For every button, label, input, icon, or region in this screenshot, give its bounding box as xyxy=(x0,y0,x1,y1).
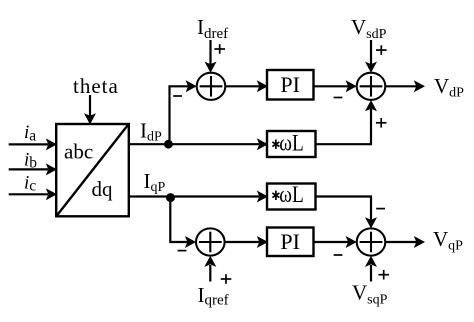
wire feedback IqP to summer S3 xyxy=(170,197,196,249)
wire VqP output xyxy=(385,236,425,248)
sign minus at summer S2 left xyxy=(334,97,343,99)
wire theta arrow xyxy=(84,95,96,125)
summing junction S2 xyxy=(357,73,386,100)
wire IqP line to wL2 xyxy=(129,191,268,203)
svg-text:PI: PI xyxy=(280,72,300,97)
sign plus at Idref xyxy=(214,44,225,54)
wire feedback IdP to summer S1 xyxy=(170,80,197,144)
block PI2 xyxy=(267,228,314,257)
wire VsdP arrow into summer S2 xyxy=(365,40,377,73)
wire Idref arrow into summer S1 xyxy=(205,40,217,73)
sign minus at summer S4 left xyxy=(334,254,343,256)
summing junction S3 xyxy=(196,228,225,255)
block wL2 xyxy=(267,182,316,210)
wire ia input xyxy=(9,138,57,150)
sign minus at summer S1 left xyxy=(173,95,182,97)
sign plus at S2 bottom input xyxy=(376,118,387,128)
wire wL2 to summer S4 top xyxy=(316,197,378,229)
wire ic input xyxy=(9,188,57,200)
wire VsqP arrow into summer S4 xyxy=(365,256,377,282)
wire VdP output xyxy=(385,80,425,92)
wire S1 to PI1 xyxy=(225,80,268,92)
svg-text:ωL: ωL xyxy=(279,182,304,207)
svg-text:dq: dq xyxy=(92,177,114,201)
wire wL1 to summer S2 bottom xyxy=(316,100,378,144)
wire S3 to PI2 xyxy=(224,236,268,248)
summing junction S1 xyxy=(197,73,226,100)
node junction dot IqP xyxy=(166,193,175,202)
node junction dot IdP xyxy=(164,140,173,149)
wire ib input xyxy=(9,163,57,175)
svg-text:theta: theta xyxy=(73,74,119,98)
block PI1 xyxy=(267,70,314,100)
wire Iqref arrow into summer S3 xyxy=(204,256,216,282)
sign minus at S4 top input xyxy=(376,208,385,210)
svg-text:PI: PI xyxy=(280,229,300,254)
block wL1 xyxy=(267,131,316,158)
abc/dq transform block U1 xyxy=(56,124,129,216)
svg-text:abc: abc xyxy=(64,140,93,164)
wire PI2 to summer S4 xyxy=(314,236,357,248)
sign plus at VsdP xyxy=(376,45,387,55)
sign plus at VsqP xyxy=(378,270,389,280)
summing junction S4 xyxy=(357,228,386,255)
wire IdP line to wL1 xyxy=(129,138,268,150)
svg-text:ωL: ωL xyxy=(279,131,304,156)
wire PI1 to summer S2 xyxy=(314,80,357,92)
sign plus at Iqref xyxy=(221,274,232,284)
sign minus at summer S3 left xyxy=(178,250,187,252)
